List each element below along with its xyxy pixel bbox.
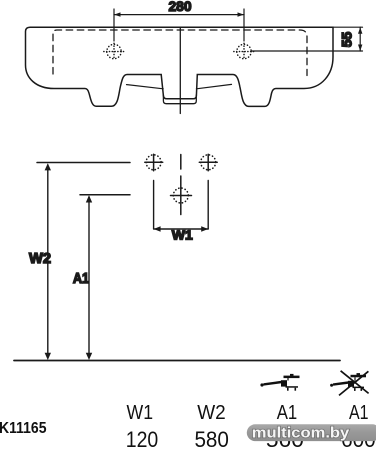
floor line bbox=[14, 360, 340, 362]
basin center line bbox=[179, 28, 181, 114]
svg-text:multicom.by: multicom.by bbox=[252, 424, 350, 441]
basin inner rim dashed bbox=[53, 30, 307, 76]
drain spigot bbox=[163, 95, 196, 104]
center tick bbox=[180, 155, 182, 170]
wall line top bbox=[37, 162, 130, 164]
left faucet hole bbox=[104, 43, 124, 60]
faucet icon bbox=[260, 374, 299, 391]
W1 dimension bbox=[154, 181, 209, 232]
dimension 55 bbox=[252, 27, 363, 51]
wall cross left bbox=[145, 154, 163, 171]
svg-text:120: 120 bbox=[126, 427, 159, 450]
watermark bar bbox=[247, 424, 376, 441]
svg-text:W1: W1 bbox=[172, 228, 193, 243]
svg-text:W2: W2 bbox=[29, 251, 51, 267]
basin outer outline bbox=[26, 27, 334, 106]
wall cross right bbox=[199, 154, 217, 171]
svg-text:W1: W1 bbox=[127, 402, 154, 424]
W2 dimension bbox=[45, 163, 51, 360]
right faucet hole bbox=[234, 43, 254, 60]
svg-text:A1: A1 bbox=[277, 402, 298, 424]
svg-text:580: 580 bbox=[194, 427, 229, 450]
svg-text:A1: A1 bbox=[349, 402, 369, 424]
dimension 280 bbox=[114, 9, 244, 41]
svg-text:55: 55 bbox=[339, 32, 355, 48]
bottom front edge slant right bbox=[196, 84, 231, 88]
svg-text:A1: A1 bbox=[73, 271, 89, 287]
svg-text:W2: W2 bbox=[197, 402, 226, 424]
wall line tap bbox=[80, 194, 130, 196]
A1 dimension bbox=[86, 195, 92, 360]
crossed faucet icon bbox=[330, 371, 369, 396]
bottom front edge slant left bbox=[127, 85, 164, 89]
middle tap cross bbox=[171, 176, 192, 215]
svg-text:K11165: K11165 bbox=[0, 420, 47, 437]
svg-text:280: 280 bbox=[169, 0, 192, 14]
